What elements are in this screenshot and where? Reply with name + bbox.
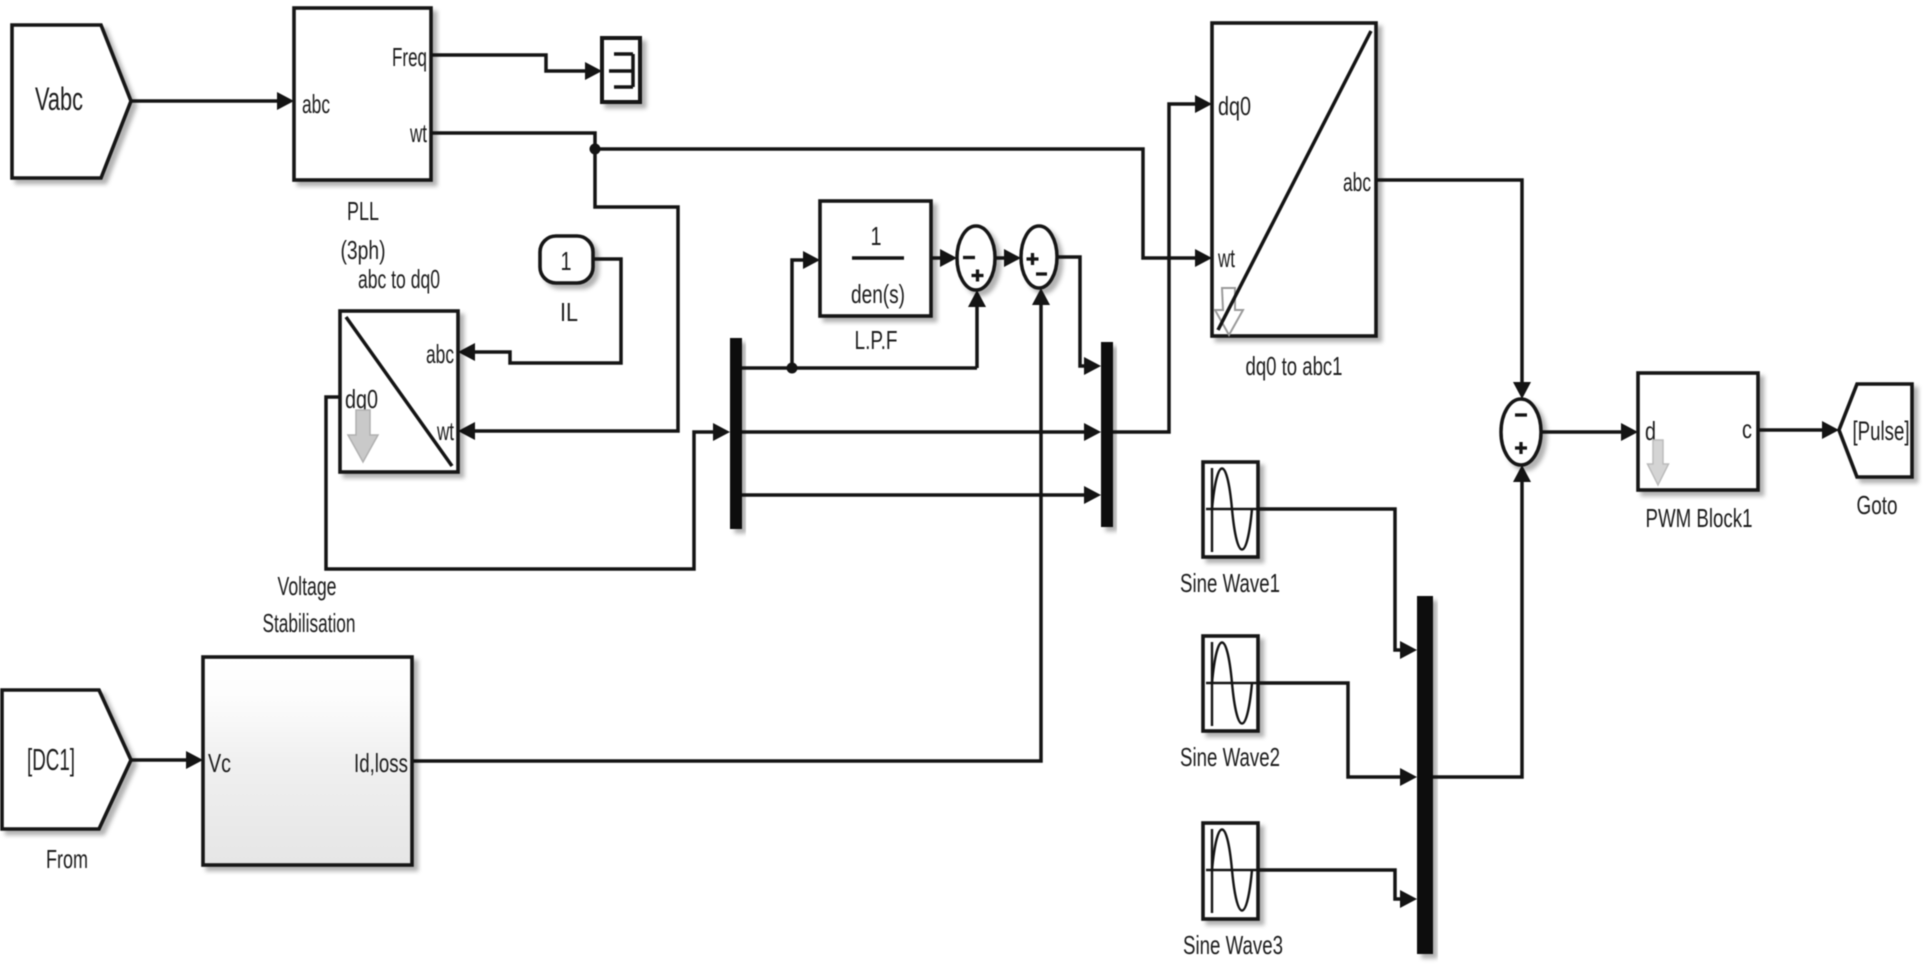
scope block — [602, 38, 640, 102]
mux bar — [1101, 342, 1113, 527]
wire abc-to-dq0 dq0 out to demux — [326, 397, 730, 569]
wire wt to dq0-to-abc1 wt port — [595, 149, 1212, 267]
svg-text:Vc: Vc — [208, 748, 231, 778]
trigger arrow icon abc-to-dq0 — [348, 410, 378, 462]
svg-text:Sine Wave1: Sine Wave1 — [1180, 568, 1280, 598]
svg-text:c: c — [1742, 414, 1752, 444]
svg-text:Goto: Goto — [1857, 490, 1898, 520]
svg-text:wt: wt — [1217, 243, 1235, 273]
sum S3 — [1501, 399, 1541, 465]
node junction wt — [590, 144, 601, 155]
icon diagonal dq0-to-abc1 — [1218, 31, 1371, 330]
wire sum2 out to mux top — [1057, 257, 1101, 375]
wire mux3 out to sum3 bottom — [1433, 465, 1531, 777]
svg-text:den(s): den(s) — [851, 279, 905, 309]
wire Sine Wave1 to mux3 — [1258, 509, 1417, 659]
svg-text:PWM Block1: PWM Block1 — [1646, 503, 1753, 533]
svg-text:abc to dq0: abc to dq0 — [358, 264, 440, 294]
sine wave source Sine Wave2 — [1180, 636, 1280, 772]
mux3 bar — [1417, 596, 1433, 954]
from tag [DC1] — [2, 690, 131, 874]
wire demux out1 — [742, 366, 977, 370]
wire PLL Freq to Scope — [431, 55, 602, 80]
svg-text:Voltage: Voltage — [278, 571, 337, 601]
svg-text:IL: IL — [560, 297, 578, 327]
node junction demux out1 — [787, 363, 798, 374]
goto tag [Pulse] — [1839, 384, 1912, 520]
wire wt to abc-to-dq0 wt port — [458, 149, 678, 440]
wire PLL wt trunk — [431, 133, 595, 149]
block dq0 to abc1 U3 — [1212, 23, 1376, 381]
svg-text:1: 1 — [561, 246, 572, 276]
wire IL to abc-to-dq0 abc port — [458, 259, 621, 363]
constant IL — [540, 236, 593, 327]
input tag Vabc — [12, 25, 131, 178]
svg-text:wt: wt — [409, 118, 427, 148]
sum S1 — [957, 226, 995, 290]
svg-text:(3ph): (3ph) — [341, 235, 386, 265]
wire LPF out to sum1 — [931, 249, 957, 267]
sine wave source Sine Wave1 — [1180, 462, 1280, 598]
block Voltage Stabilisation — [203, 571, 412, 865]
svg-text:Stabilisation: Stabilisation — [263, 608, 356, 638]
trigger arrow icon dq0-to-abc1 — [1215, 288, 1243, 335]
wire Vabc to PLL abc — [131, 92, 294, 110]
svg-text:From: From — [46, 844, 88, 874]
wire abc out to sum3 top — [1376, 180, 1531, 399]
wire branch to LPF input — [792, 251, 820, 368]
svg-text:wt: wt — [436, 416, 454, 446]
wire demux out3 to mux — [742, 486, 1101, 504]
svg-text:PLL: PLL — [347, 196, 379, 226]
svg-text:[Pulse]: [Pulse] — [1853, 416, 1910, 446]
wire PWM c to Goto — [1758, 421, 1839, 439]
wire sum3 to PWM d — [1541, 423, 1638, 441]
wire Id,loss to sum2 bottom — [413, 288, 1050, 761]
svg-text:abc: abc — [1343, 167, 1371, 197]
svg-text:1: 1 — [871, 221, 882, 251]
svg-text:Freq: Freq — [392, 42, 427, 72]
svg-text:Sine Wave3: Sine Wave3 — [1183, 930, 1283, 960]
sum S2 — [1021, 226, 1057, 288]
demux bar — [730, 338, 742, 529]
svg-text:dq0: dq0 — [1218, 91, 1251, 121]
block L.P.F transfer function — [820, 201, 931, 355]
wire mux out to dq0 port — [1113, 95, 1212, 432]
trigger arrow icon PWM — [1648, 440, 1669, 485]
svg-text:abc: abc — [426, 339, 454, 369]
block PWM Block1 — [1638, 373, 1758, 533]
wire DC1 to Vc — [131, 751, 203, 769]
svg-text:abc: abc — [302, 89, 330, 119]
svg-text:Vabc: Vabc — [35, 81, 83, 117]
wire branch up to sum1 bottom — [968, 290, 986, 368]
svg-text:L.P.F: L.P.F — [855, 325, 898, 355]
wire Sine Wave3 to mux3 — [1258, 870, 1417, 908]
svg-text:[DC1]: [DC1] — [27, 742, 75, 777]
svg-text:Id,loss: Id,loss — [354, 748, 408, 778]
wire demux out2 to mux — [742, 423, 1101, 441]
block abc to dq0 U2 — [340, 264, 458, 472]
wire Sine Wave2 to mux3 — [1258, 683, 1417, 786]
block PLL (3ph) U1 — [294, 8, 431, 265]
svg-text:Sine Wave2: Sine Wave2 — [1180, 742, 1280, 772]
wire sum1 to sum2 — [995, 249, 1021, 267]
sine wave source Sine Wave3 — [1183, 823, 1283, 960]
svg-text:dq0 to abc1: dq0 to abc1 — [1246, 351, 1343, 381]
